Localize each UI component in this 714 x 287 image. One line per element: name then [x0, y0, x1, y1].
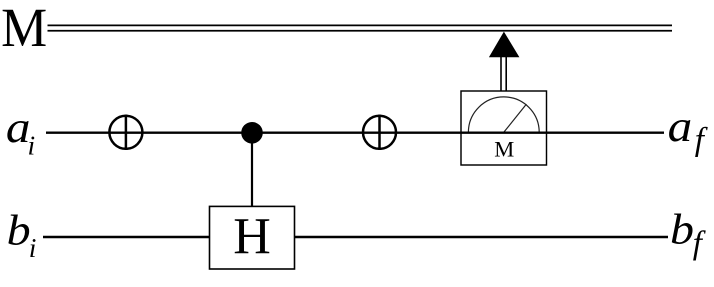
- svg-text:a: a: [668, 102, 693, 151]
- label b_f: [670, 207, 706, 262]
- svg-text:M: M: [494, 137, 514, 162]
- measurement box U-M: [461, 91, 547, 165]
- meter dial arc: [468, 97, 539, 132]
- control wire (dot to H box): [251, 133, 253, 207]
- svg-text:b: b: [7, 207, 31, 254]
- meter needle: [504, 104, 527, 132]
- arrow shaft (double line to classical wire): [501, 57, 506, 91]
- svg-text:i: i: [28, 130, 36, 161]
- label a_i: [6, 103, 35, 161]
- svg-text:i: i: [29, 232, 37, 263]
- wire a: [46, 131, 664, 133]
- classical double wire: [48, 25, 673, 30]
- svg-text:M: M: [1, 0, 47, 59]
- label b_i: [7, 207, 37, 263]
- arrow head triangle: [489, 32, 520, 58]
- svg-text:b: b: [670, 207, 694, 254]
- svg-text:H: H: [233, 209, 271, 266]
- gate H box: [210, 206, 295, 269]
- CNOT target X1: [109, 115, 142, 150]
- label a_f: [668, 102, 708, 158]
- CNOT target X2: [363, 115, 396, 150]
- control dot: [241, 122, 263, 144]
- wire b: [43, 236, 668, 238]
